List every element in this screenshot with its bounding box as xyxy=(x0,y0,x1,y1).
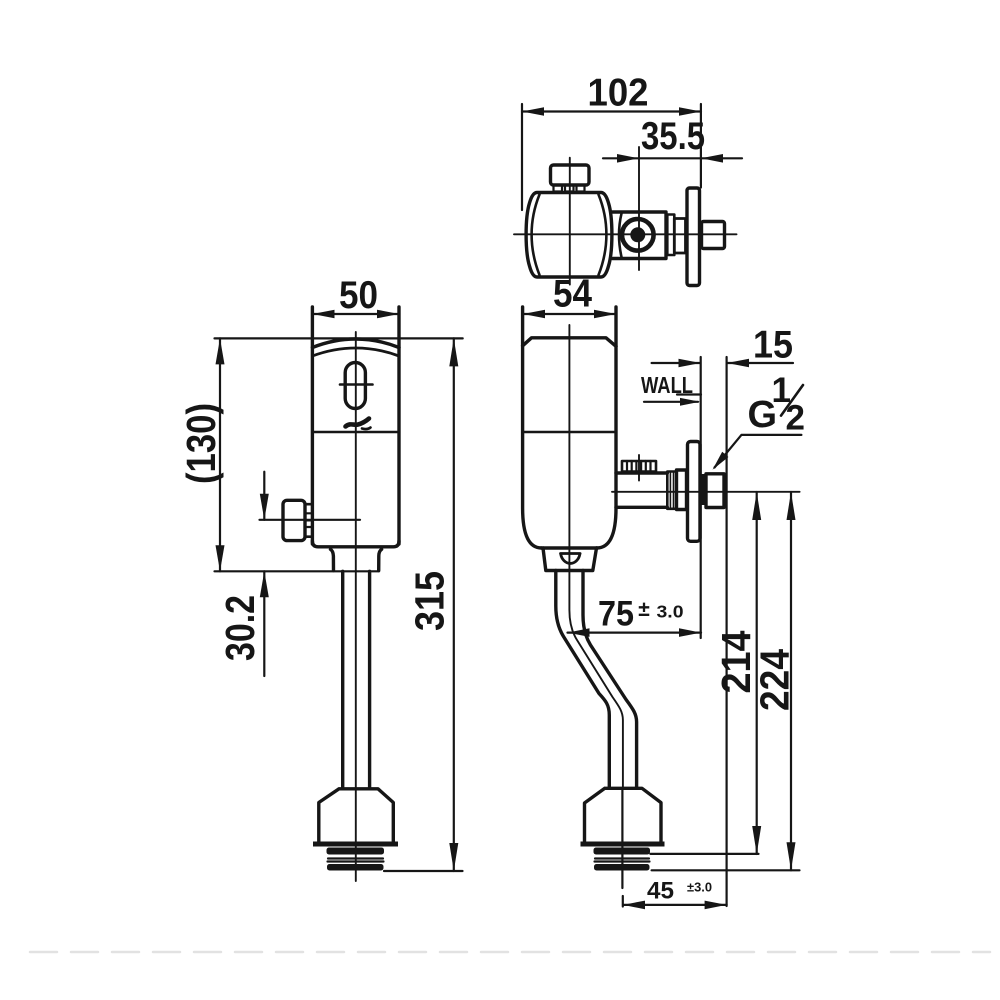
side pipe centerline xyxy=(569,325,623,788)
ref line 214 xyxy=(650,853,758,855)
top view vertical centerline xyxy=(569,158,571,285)
ref line 224 xyxy=(652,869,800,871)
top view knob outer ring xyxy=(622,219,654,251)
front outlet pipe xyxy=(341,571,344,788)
dim 102 extension lines xyxy=(521,104,523,210)
side rib centerline xyxy=(638,455,640,481)
svg-text:50: 50 xyxy=(339,274,378,317)
top view knob centerline xyxy=(638,147,640,270)
dim 54 line xyxy=(523,313,616,315)
front body right edge xyxy=(397,307,400,544)
dim 45 line xyxy=(623,904,727,906)
side inlet pipe xyxy=(616,471,667,474)
side rib connector xyxy=(622,461,656,472)
side body shoulder xyxy=(542,546,597,549)
dim 315 line xyxy=(453,338,455,871)
bottom faint dashed line xyxy=(30,951,990,954)
dim 30.2 lower arrow xyxy=(263,571,265,676)
svg-text:45: 45 xyxy=(647,878,674,905)
side body left edge xyxy=(523,307,542,548)
svg-text:±3.0: ±3.0 xyxy=(687,880,712,895)
top view valve block xyxy=(613,212,667,259)
dim 15 left arrow xyxy=(652,362,700,364)
ref line bottom 130 xyxy=(215,570,380,572)
ref line bottom 315 xyxy=(384,870,463,872)
top view threaded nipple xyxy=(702,222,725,249)
side spud centerline xyxy=(621,789,623,889)
extension line x=726.6 xyxy=(725,357,727,906)
G 1/2 leader xyxy=(715,435,802,468)
svg-text:35.5: 35.5 xyxy=(641,115,705,158)
side spud flange xyxy=(581,842,665,847)
svg-text:315: 315 xyxy=(407,571,453,631)
top view block left socket arc xyxy=(619,214,622,258)
front body bottom xyxy=(312,541,399,547)
side spud bell xyxy=(585,788,662,841)
front logo mark xyxy=(346,419,371,430)
svg-text:54: 54 xyxy=(553,273,592,316)
dim 35.5 line xyxy=(603,157,742,159)
top view horizontal centerline xyxy=(514,233,737,235)
front sensor crossline xyxy=(340,383,373,386)
side body divider xyxy=(523,431,616,434)
front body top arc 1 xyxy=(312,339,399,348)
dim 224 line xyxy=(790,492,792,870)
front spud threads xyxy=(327,848,385,855)
svg-text:(130): (130) xyxy=(178,403,224,484)
front skirt left xyxy=(331,549,334,570)
WALL underline xyxy=(677,393,701,395)
top view collar 2 xyxy=(674,219,685,254)
front spud flange xyxy=(313,842,398,847)
svg-text:75: 75 xyxy=(598,595,634,634)
knob centerline ref xyxy=(260,519,361,521)
front side knob xyxy=(283,500,305,540)
side nut xyxy=(706,474,724,508)
front sensor window xyxy=(345,363,365,409)
front skirt right xyxy=(379,549,382,570)
ref line top (130/315) xyxy=(215,337,463,339)
front body divider xyxy=(312,431,399,434)
top view barrel right seam xyxy=(599,195,607,276)
side upper outlet pipe left xyxy=(556,571,610,789)
top view wall plate xyxy=(687,188,700,286)
svg-text:±: ± xyxy=(638,598,650,621)
side wall section xyxy=(701,474,707,505)
front vertical centerline xyxy=(355,332,357,881)
front knob ridges xyxy=(305,504,312,537)
side spud threads xyxy=(594,848,651,855)
wall face line xyxy=(700,357,702,638)
WALL arrow xyxy=(644,401,698,403)
top view knob center xyxy=(630,227,645,242)
side upper outlet pipe right xyxy=(583,571,637,789)
side inlet threaded section xyxy=(667,472,676,509)
top view barrel left seam xyxy=(532,195,540,276)
dim 75 line xyxy=(568,631,702,633)
dim 15 right arrow xyxy=(727,362,793,364)
top view cap xyxy=(551,165,590,185)
side escutcheon plate xyxy=(688,442,701,542)
side bottom cup xyxy=(543,548,597,571)
dim 102 line xyxy=(522,110,701,112)
front spud bell xyxy=(319,789,394,842)
side body right edge xyxy=(597,307,616,548)
side cup tab xyxy=(561,554,581,564)
svg-text:30.2: 30.2 xyxy=(217,595,263,661)
top view barrel body xyxy=(526,193,612,278)
svg-text:102: 102 xyxy=(588,72,649,115)
dim 50 line xyxy=(313,313,400,315)
groups will be inserted here xyxy=(514,147,737,286)
dim 30.2 upper arrow xyxy=(263,472,265,520)
svg-text:3.0: 3.0 xyxy=(657,602,684,622)
front body top arc 2 xyxy=(312,348,399,356)
side inlet centerline xyxy=(612,491,800,493)
top view cap feet xyxy=(554,185,563,192)
dim 130 line xyxy=(219,338,221,571)
side inlet collar xyxy=(677,470,687,510)
svg-text:15: 15 xyxy=(753,324,793,367)
side body top xyxy=(523,338,616,347)
dim 214 line xyxy=(756,492,758,854)
top view collar 1 xyxy=(667,215,674,256)
front body left edge xyxy=(311,307,314,544)
